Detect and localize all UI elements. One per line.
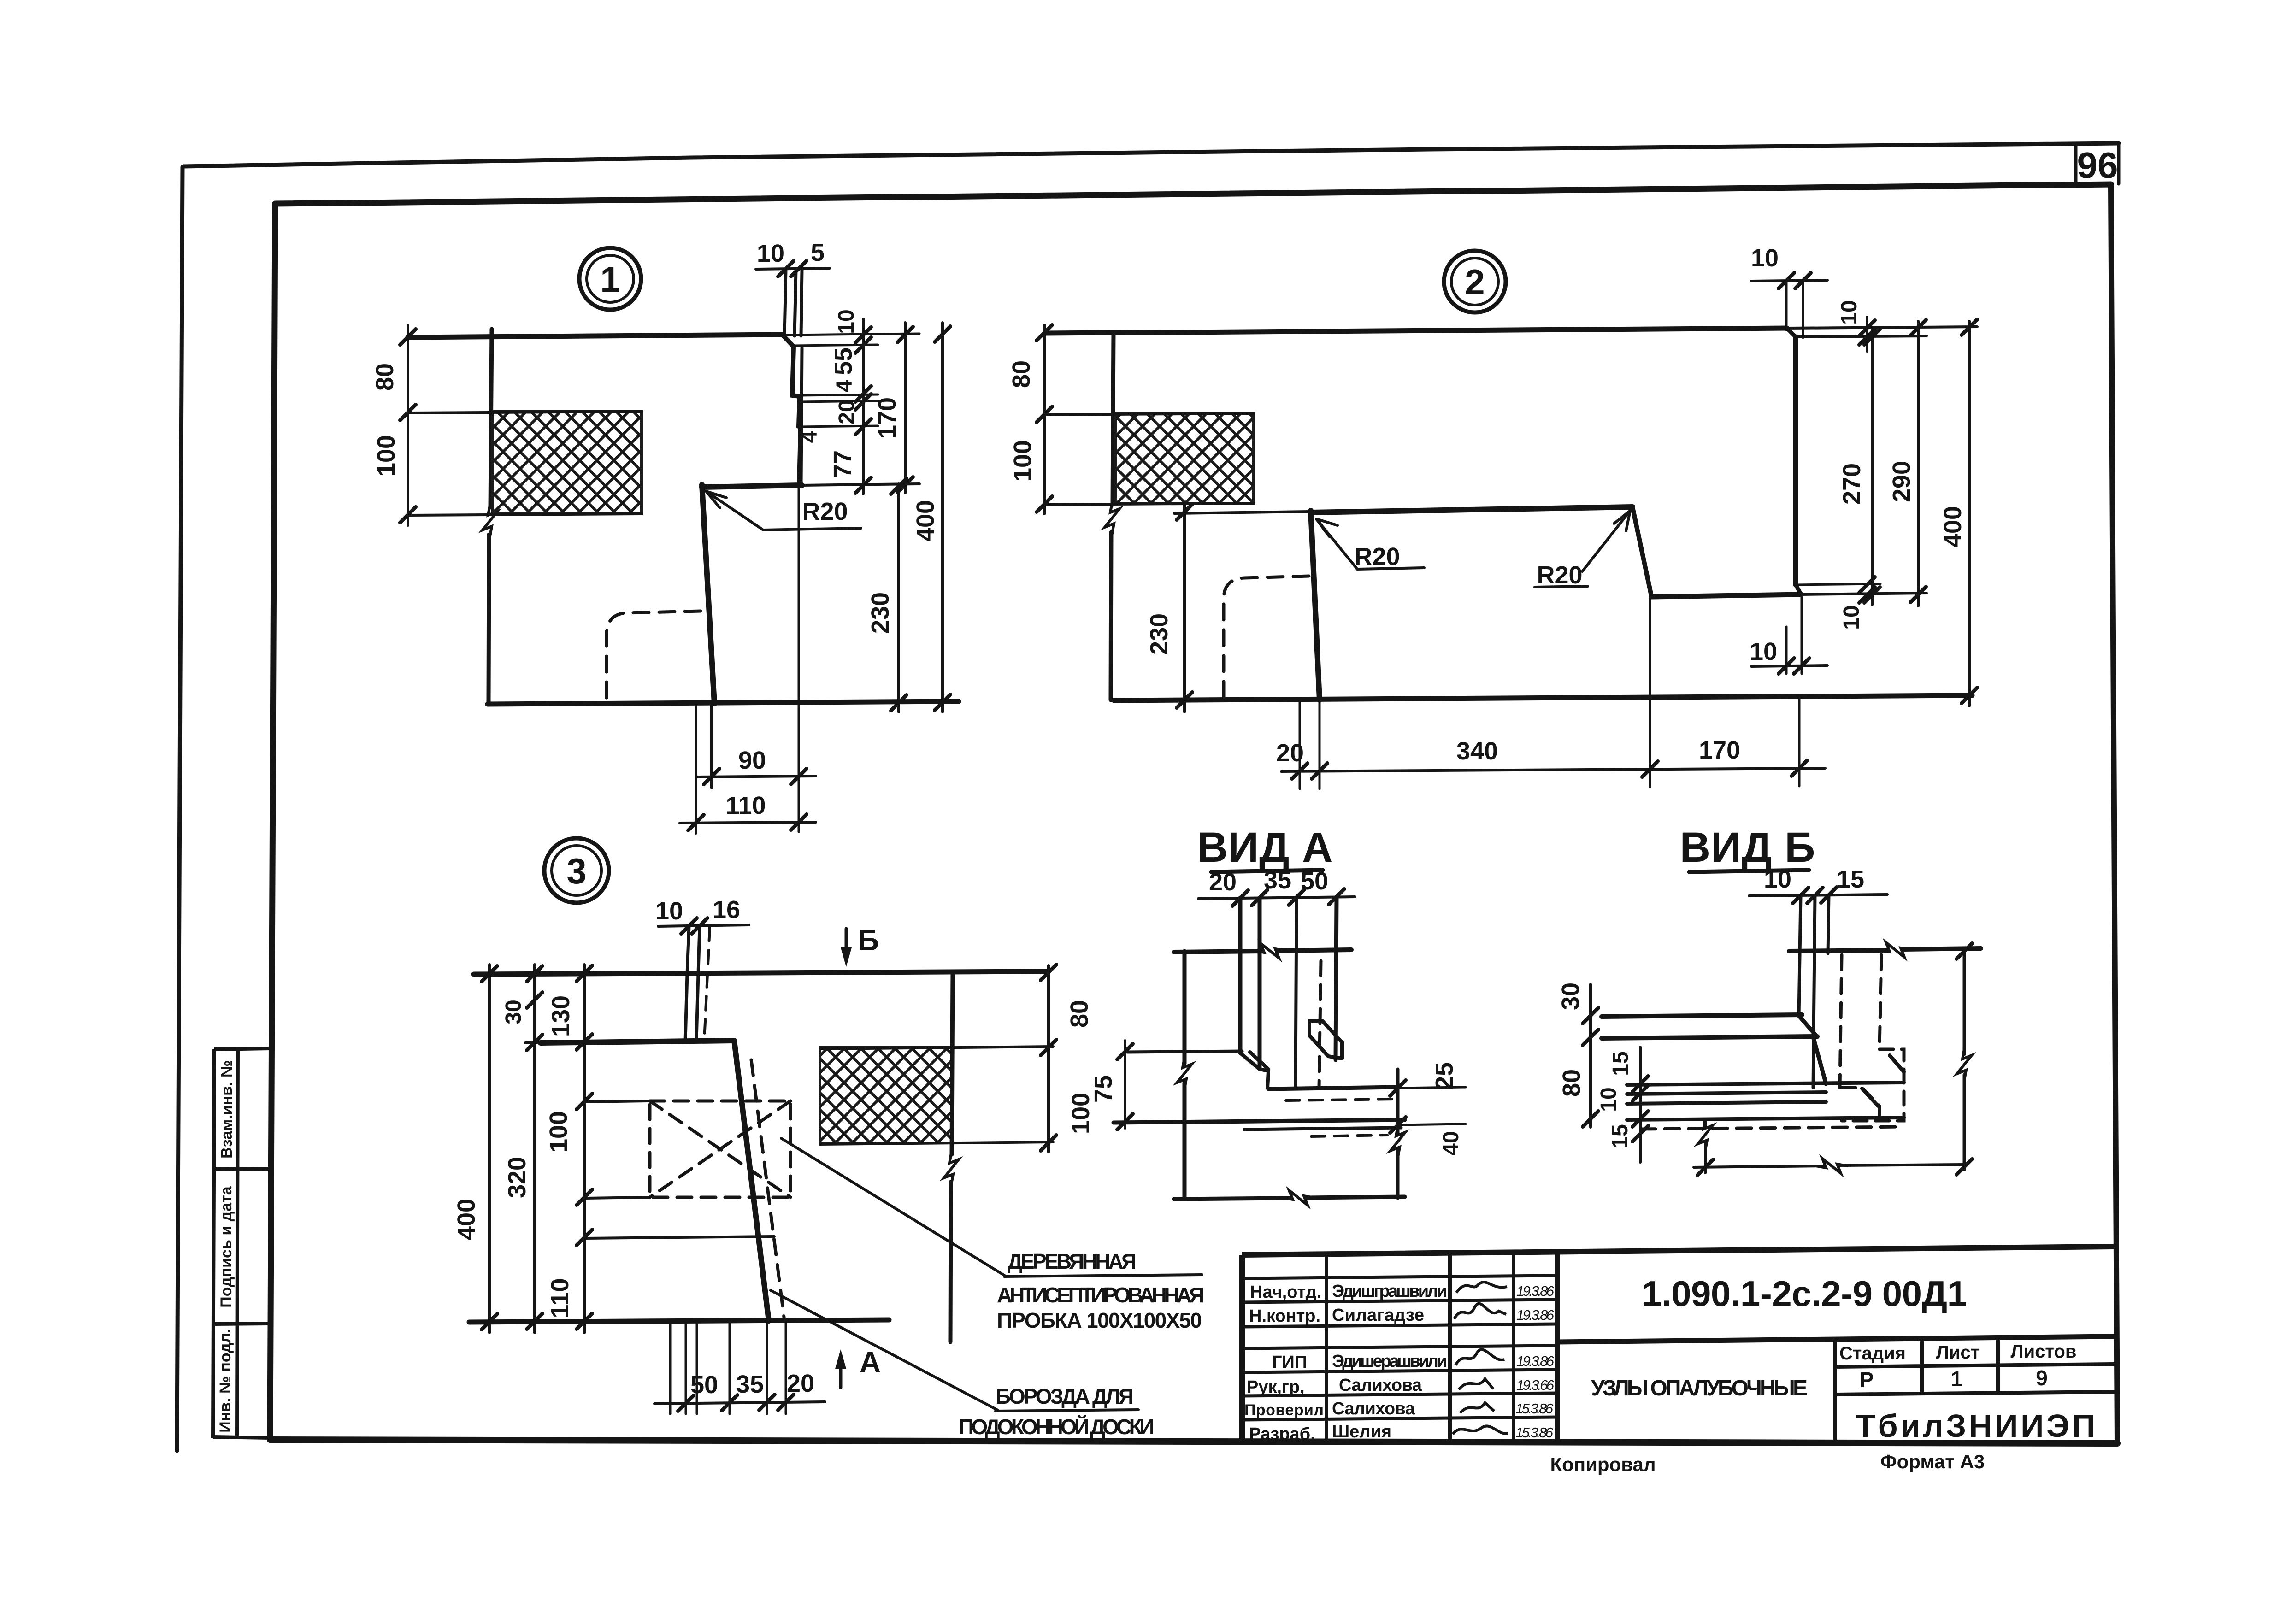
vA board dashed lower (1311, 1135, 1387, 1136)
d1 left dimension chain (407, 325, 409, 525)
d2 insulation hatch (1115, 413, 1254, 503)
svg-text:35: 35 (1264, 866, 1291, 894)
d2 left dimension chain (1043, 325, 1046, 514)
svg-text:Б: Б (858, 924, 879, 957)
svg-text:400: 400 (453, 1199, 480, 1240)
d3 leader groove (771, 1290, 1138, 1411)
svg-text:ВИД Б: ВИД Б (1680, 824, 1816, 871)
signature row7 (1460, 1403, 1494, 1413)
d2 ledge (1651, 594, 1801, 597)
svg-text:Листов: Листов (2011, 1342, 2077, 1362)
side stamp box (213, 1048, 270, 1438)
detail marker 1 (579, 248, 641, 310)
d2 top extension right (1787, 327, 1977, 328)
d3 section arrow B (845, 929, 848, 961)
vB board lines (1627, 1083, 1904, 1120)
d3 bottom ext verticals (670, 1322, 786, 1414)
d1 jamb face (702, 485, 714, 704)
vA right dim chain (1396, 1069, 1400, 1198)
d3 ext y2273 (820, 1047, 1053, 1049)
svg-text:АНТИСЕПТИРОВАННАЯ: АНТИСЕПТИРОВАННАЯ (997, 1283, 1204, 1307)
svg-text:Стадия: Стадия (1839, 1343, 1906, 1364)
d2 bottom right dim 10 (1751, 665, 1827, 666)
d2 chain 270 (1871, 330, 1874, 605)
vA dashed center (1319, 961, 1321, 1088)
svg-text:Взам.инв. №: Взам.инв. № (218, 1060, 236, 1159)
d1 sill extension (802, 484, 919, 485)
svg-text:80: 80 (1008, 360, 1035, 388)
detail marker 3 (544, 838, 609, 903)
svg-text:ПОДОКОННОЙ ДОСКИ: ПОДОКОННОЙ ДОСКИ (959, 1415, 1155, 1439)
d3 bottom dim line (654, 1402, 825, 1404)
vB dashed vertical 2 (1880, 955, 1881, 1049)
svg-text:130: 130 (547, 995, 575, 1037)
vA top dim line (1198, 897, 1355, 899)
svg-text:20: 20 (1209, 868, 1237, 896)
svg-text:320: 320 (503, 1157, 531, 1198)
d2 right reveal slant (1632, 507, 1651, 596)
svg-text:10: 10 (1764, 865, 1791, 893)
svg-text:Салихова: Салихова (1339, 1376, 1422, 1395)
d2 bottom ext verticals (1300, 598, 1799, 789)
svg-text:50: 50 (690, 1371, 718, 1399)
svg-text:Салихова: Салихова (1332, 1399, 1415, 1418)
svg-text:80: 80 (1558, 1069, 1585, 1097)
svg-text:19.3.66: 19.3.66 (1516, 1377, 1555, 1393)
vA keyway (1309, 1021, 1342, 1059)
d2 top right chamfer (1787, 328, 1796, 337)
view B title underline (1689, 870, 1809, 872)
d2 chain 290 (1917, 321, 1920, 606)
d1 ext strip down (798, 488, 800, 832)
d2 top dim 10 (1751, 280, 1827, 281)
d3 strip dashed slant (704, 927, 710, 1041)
svg-text:55: 55 (830, 347, 857, 375)
svg-text:ТбилЗНИИЭП: ТбилЗНИИЭП (1856, 1408, 2095, 1444)
svg-text:БОРОЗДА ДЛЯ: БОРОЗДА ДЛЯ (996, 1384, 1134, 1408)
svg-text:75: 75 (1090, 1075, 1117, 1103)
d1 extension line y893 (408, 412, 642, 413)
d1 dim 110 (680, 706, 816, 833)
svg-text:20: 20 (787, 1370, 814, 1397)
svg-text:100: 100 (545, 1111, 572, 1153)
view A title underline (1211, 870, 1323, 872)
d1 top dim line 10/5 (756, 268, 830, 269)
d3 chain segments (583, 965, 586, 1333)
vB keyway solid (1862, 1055, 1904, 1106)
d1 chain 400 (941, 323, 944, 712)
svg-text:30: 30 (1557, 983, 1585, 1010)
vA channel left2 (1258, 898, 1262, 1068)
svg-text:340: 340 (1456, 737, 1498, 765)
svg-text:10: 10 (1837, 300, 1862, 324)
svg-text:15: 15 (1608, 1124, 1632, 1148)
svg-text:2: 2 (1465, 262, 1485, 302)
d1 chain 170 (904, 323, 907, 493)
d3 section arrow A (839, 1355, 843, 1388)
TITLE BLOCK (1242, 1247, 2115, 1443)
svg-text:УЗЛЫ ОПАЛУБОЧНЫЕ: УЗЛЫ ОПАЛУБОЧНЫЕ (1591, 1376, 1808, 1400)
d3 chain 400 (488, 965, 491, 1333)
svg-text:80: 80 (1066, 1000, 1093, 1028)
svg-text:1.090.1-2с.2-9 00Д1: 1.090.1-2с.2-9 00Д1 (1642, 1273, 1967, 1314)
vB bottom dim line (1694, 1165, 1964, 1167)
svg-text:96: 96 (2077, 145, 2118, 186)
d2 sill line (1311, 507, 1632, 512)
svg-text:10: 10 (1751, 244, 1779, 272)
d3 top dim line (658, 925, 749, 926)
vA board second line (1244, 1128, 1401, 1130)
svg-text:170: 170 (1699, 736, 1740, 764)
title block main divider (1555, 1252, 1560, 1443)
signature row2 (1453, 1282, 1508, 1434)
d2 left jamb face (1311, 511, 1320, 700)
svg-text:10: 10 (1597, 1087, 1621, 1112)
d1 leader R20 (706, 491, 861, 530)
svg-text:ДЕРЕВЯННАЯ: ДЕРЕВЯННАЯ (1008, 1249, 1137, 1273)
detail marker 2 (1444, 251, 1506, 312)
vA ledge ext left (1127, 1051, 1242, 1052)
svg-text:Проверил: Проверил (1244, 1401, 1324, 1419)
svg-text:19.3.86: 19.3.86 (1516, 1283, 1555, 1299)
frame top (275, 184, 2111, 204)
d2 hidden dashed contour (1224, 576, 1309, 699)
d2 extension line y1092 (1044, 503, 1254, 505)
svg-text:ВИД А: ВИД А (1197, 824, 1333, 871)
vA ext right (1398, 1087, 1466, 1125)
vB left chain 30-80 (1589, 984, 1592, 1127)
vA board top line (1268, 1087, 1398, 1089)
vB top dim line (1749, 894, 1887, 896)
d3 leader plug (781, 1138, 1202, 1277)
vB dashed vertical 1 (1840, 955, 1842, 1088)
svg-text:400: 400 (912, 500, 939, 541)
svg-text:3: 3 (566, 851, 586, 891)
d2 bottom line (1114, 695, 1972, 700)
d1 small ext lines (784, 334, 919, 427)
svg-text:Копировал: Копировал (1550, 1453, 1656, 1475)
d1 chain 230 (897, 484, 900, 712)
svg-text:R20: R20 (802, 498, 848, 525)
vB dashed lower (1641, 1127, 1904, 1129)
title block stage table (1835, 1340, 2115, 1443)
signature row3 (1454, 1304, 1506, 1319)
d3 inner face line (469, 1320, 889, 1322)
vA bottom line (1174, 1197, 1405, 1199)
frame bottom (270, 1440, 2117, 1443)
svg-text:Разраб,: Разраб, (1249, 1424, 1315, 1444)
vA board dashed upper (1286, 1099, 1394, 1100)
d2 sill extension left (1174, 512, 1311, 513)
svg-text:R20: R20 (1537, 561, 1582, 589)
svg-text:230: 230 (1145, 613, 1173, 655)
vB left wall line1 (1602, 1015, 1802, 1017)
svg-text:15: 15 (1609, 1051, 1633, 1076)
d3 ext y2480 (820, 1142, 1053, 1144)
vB left wall line2 (1602, 1036, 1817, 1038)
svg-text:4: 4 (797, 430, 822, 443)
d2 bottom right chamfer (1796, 585, 1801, 594)
vB bottom ext vertical (1704, 1121, 1707, 1173)
d1 sill line (702, 485, 802, 487)
vB wall top line (1789, 948, 1981, 951)
d3 insulation hatch (820, 1047, 951, 1143)
svg-text:Лист: Лист (1936, 1342, 1980, 1363)
svg-text:15.3.86: 15.3.86 (1515, 1424, 1554, 1441)
svg-text:Подпись и дата: Подпись и дата (218, 1186, 235, 1308)
d2 leader R20 right (1535, 511, 1630, 587)
title block column lines (1326, 1253, 1514, 1443)
frame right (2111, 184, 2117, 1443)
svg-text:290: 290 (1888, 461, 1915, 502)
title block row lines (1242, 1276, 1557, 1420)
d3 reveal slant (734, 1041, 769, 1321)
svg-text:20: 20 (835, 400, 859, 424)
svg-text:35: 35 (736, 1371, 764, 1398)
d1 wall top line (408, 335, 783, 337)
svg-text:100: 100 (372, 435, 400, 477)
d2 ext line y1269 (1796, 584, 1880, 585)
svg-text:20: 20 (1276, 739, 1304, 767)
d3 chain 320 (533, 965, 536, 1333)
d1 bottom line (488, 701, 959, 704)
d3 plug cross (650, 1101, 790, 1197)
vA channel left (1238, 898, 1243, 1053)
svg-text:Шелия: Шелия (1332, 1422, 1391, 1442)
d2 step line y731 (1796, 336, 1927, 337)
d2 ledge extension (1801, 593, 1927, 594)
svg-text:А: А (860, 1346, 881, 1379)
vA inner chamfer (1260, 1069, 1268, 1088)
d2 right chain 10 bottom (1859, 577, 1875, 593)
svg-text:1: 1 (1950, 1367, 1962, 1391)
svg-text:Р: Р (1860, 1368, 1874, 1392)
svg-text:19.3.86: 19.3.86 (1516, 1307, 1555, 1323)
vA board bottom line (1114, 1120, 1405, 1123)
d2 leader R20 left (1316, 519, 1424, 569)
d2 right upper face (1793, 337, 1798, 585)
d3 plug dashed box (650, 1101, 790, 1197)
svg-text:5: 5 (811, 239, 825, 266)
page edge left (177, 167, 183, 1451)
svg-text:10: 10 (1839, 605, 1864, 630)
vB corner bevel (1799, 1016, 1826, 1084)
vA channel right (1336, 897, 1337, 1060)
d1 wall left face (489, 329, 492, 704)
svg-text:Инв. № подл.: Инв. № подл. (217, 1329, 234, 1433)
frame left (270, 204, 275, 1440)
svg-text:ГИП: ГИП (1272, 1353, 1307, 1372)
d1 extension line y1115 (408, 514, 642, 515)
svg-text:15: 15 (1837, 865, 1864, 893)
svg-text:1: 1 (600, 259, 620, 300)
signature row6 (1459, 1379, 1493, 1389)
vA wall top line (1174, 950, 1351, 952)
svg-text:80: 80 (371, 363, 399, 391)
vA wall left face (1183, 951, 1187, 1199)
d3 ext lines to chains (525, 1042, 774, 1238)
d3 right chain (1047, 965, 1050, 1152)
svg-text:10: 10 (1750, 638, 1777, 665)
d1 insulation hatch (492, 412, 642, 514)
d2 bottom dim line (1281, 768, 1825, 771)
svg-text:19.3.86: 19.3.86 (1516, 1353, 1555, 1369)
svg-text:Силагадзе: Силагадзе (1332, 1306, 1424, 1325)
vB right chain (1963, 950, 1966, 1170)
svg-text:110: 110 (725, 792, 766, 819)
d2 chain 400 (1968, 321, 1971, 706)
d2 wall left face (1111, 333, 1114, 700)
svg-text:Формат А3: Формат А3 (1880, 1451, 1985, 1472)
svg-text:110: 110 (546, 1278, 574, 1318)
svg-text:50: 50 (1301, 867, 1328, 895)
page number box (2076, 144, 2119, 184)
svg-text:9: 9 (2036, 1366, 2048, 1390)
svg-text:15.3.86: 15.3.86 (1515, 1400, 1554, 1417)
d1 dim 90 (696, 706, 816, 788)
svg-text:R20: R20 (1354, 543, 1400, 571)
d2 extension line y897 (1044, 413, 1254, 415)
svg-text:ПРОБКА 100X100X50: ПРОБКА 100X100X50 (997, 1308, 1202, 1332)
title block outer (1242, 1247, 2114, 1443)
d2 chain 230 (1183, 503, 1186, 712)
vA dim 75 (1124, 1041, 1126, 1128)
d2 wall top line (1046, 328, 1787, 333)
d1 right small dim chain (862, 319, 865, 494)
d3 inner wall vertical (950, 972, 953, 1342)
d1 channel profile (783, 335, 801, 486)
d3 strip below (685, 974, 698, 1041)
vA channel mid (1296, 897, 1296, 1088)
vB strip verticals (1799, 895, 1829, 1088)
svg-text:77: 77 (829, 450, 856, 478)
d3 groove dashed slant (751, 1060, 784, 1321)
svg-text:10: 10 (655, 897, 683, 925)
vB left chain 15-10-15 (1639, 1047, 1642, 1162)
svg-text:400: 400 (1939, 506, 1967, 547)
d3 jamb face (541, 1041, 734, 1043)
svg-text:25: 25 (1431, 1062, 1458, 1090)
svg-text:30: 30 (501, 1000, 526, 1024)
svg-text:100: 100 (1009, 440, 1037, 482)
svg-text:Н.контр.: Н.контр. (1249, 1306, 1320, 1326)
svg-text:10: 10 (834, 309, 859, 334)
svg-text:Эдишграшвили: Эдишграшвили (1332, 1282, 1447, 1301)
signature row8 (1453, 1426, 1508, 1434)
svg-text:Рук,гр,: Рук,гр, (1247, 1377, 1305, 1397)
page edge top (183, 143, 2119, 166)
svg-text:Эдишерашвили: Эдишерашвили (1332, 1352, 1447, 1371)
svg-text:40: 40 (1439, 1131, 1463, 1155)
svg-text:270: 270 (1838, 463, 1866, 505)
d2 right chain 10 top (1866, 317, 1868, 351)
svg-text:Нач,отд.: Нач,отд. (1250, 1283, 1321, 1302)
svg-text:10: 10 (757, 240, 784, 267)
vA corner bevel (1240, 1052, 1268, 1069)
d3 strip above (687, 926, 700, 974)
d3 outer face line (474, 971, 1049, 974)
svg-text:90: 90 (738, 747, 766, 774)
svg-text:16: 16 (713, 896, 740, 924)
svg-text:170: 170 (873, 397, 901, 439)
svg-text:4: 4 (832, 380, 857, 392)
d1 hidden dashed contour (607, 611, 701, 703)
d1 formwork strip verticals (784, 270, 802, 336)
title block doc row line (1557, 1336, 2115, 1342)
svg-text:230: 230 (866, 592, 894, 634)
vB keyway dashed (1842, 1049, 1904, 1121)
signature row5 (1455, 1349, 1504, 1365)
